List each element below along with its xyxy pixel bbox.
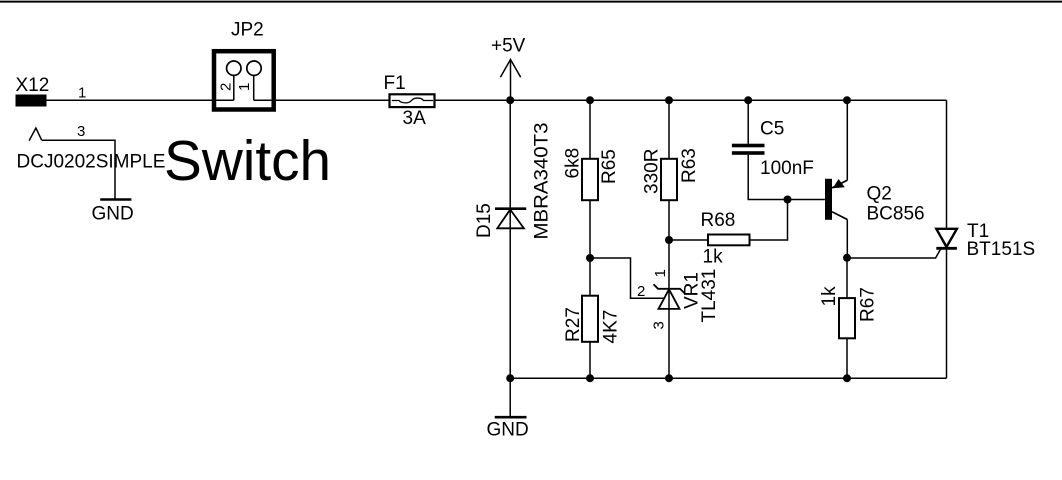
JP2 pin 2 stem wire [233, 75, 235, 100]
JP2 pin 2 circle [227, 61, 241, 75]
capacitor C5 plate bottom [732, 151, 765, 155]
svg-text:C5: C5 [760, 119, 784, 140]
wire VR1 anode to bottom rail [668, 309, 670, 378]
wire rail corner to T1 anode [946, 100, 948, 229]
wire Q2 collector to node [846, 220, 848, 258]
svg-text:2: 2 [218, 83, 235, 91]
svg-text:R27: R27 [563, 307, 584, 342]
JP2 pin 1 stem wire [253, 75, 255, 100]
node dot collector/R67/gate [843, 254, 851, 262]
svg-text:GND: GND [92, 204, 134, 225]
ground symbol left [100, 198, 131, 201]
wire R67 to bottom rail [846, 338, 848, 378]
node dot rail / Q2 emitter [843, 96, 851, 104]
wire bottom node to GND symbol [509, 378, 511, 417]
shunt regulator VR1 triangle [659, 289, 680, 309]
wire X12 pin3 to GND [42, 140, 115, 199]
wire R68 to base node [750, 200, 788, 241]
svg-text:2: 2 [637, 283, 645, 300]
resistor R68 body [708, 235, 750, 246]
connector X12 pin 3 bent lead [29, 128, 42, 141]
node dot bottom GND [506, 374, 514, 382]
thyristor T1 cathode bar [936, 247, 957, 250]
Q2 emitter lead [832, 180, 847, 188]
node dot bottom VR1 [665, 374, 673, 382]
bottom rail wire [510, 377, 946, 379]
svg-text:TL431: TL431 [699, 269, 720, 323]
svg-text:1k: 1k [819, 286, 840, 307]
resistor R65 body [582, 159, 598, 200]
frame border top [0, 1, 1062, 3]
wire rail to C5 [747, 100, 749, 144]
svg-text:3A: 3A [403, 108, 427, 129]
svg-text:MBRA340T3: MBRA340T3 [532, 123, 553, 240]
svg-text:GND: GND [487, 420, 529, 441]
wire node to T1 gate [847, 248, 941, 258]
wire rail to R63 [668, 100, 670, 159]
wire D15 anode to bottom rail [509, 228, 511, 378]
svg-text:D15: D15 [474, 203, 495, 238]
resistor R63 body [661, 159, 677, 200]
svg-text:R63: R63 [679, 148, 700, 183]
wire ref tap to VR1 pin2 [590, 258, 664, 298]
wire node to R67 [846, 258, 848, 298]
svg-text:BC856: BC856 [867, 204, 925, 225]
wire R63 to VR1 cathode [668, 200, 670, 289]
shunt regulator VR1 cathode bar [654, 284, 685, 293]
connector X12 pad [16, 95, 47, 107]
svg-text:6k8: 6k8 [563, 148, 584, 179]
svg-text:100nF: 100nF [760, 158, 814, 179]
svg-text:4K7: 4K7 [601, 310, 622, 344]
fuse F1 body [390, 94, 435, 107]
wire through D15 [509, 209, 511, 229]
svg-text:X12: X12 [16, 75, 50, 96]
Q2 emitter arrow [833, 179, 845, 188]
node dot rail / C5 [744, 96, 752, 104]
svg-text:Q2: Q2 [867, 184, 892, 205]
connector JP2 box [214, 51, 274, 109]
svg-text:DCJ0202SIMPLE: DCJ0202SIMPLE [17, 152, 166, 173]
wire X12 pin1 to JP2 pin2 [47, 99, 234, 101]
svg-text:1: 1 [236, 83, 253, 91]
diode D15 triangle [497, 210, 524, 229]
wire through VR1 [668, 289, 670, 309]
wire R65 to R27 [589, 200, 591, 296]
resistor R27 body [582, 296, 598, 342]
+5V stem wire [510, 60, 512, 101]
transistor Q2 base bar [825, 179, 832, 220]
svg-text:BT151S: BT151S [967, 239, 1036, 260]
node dot rail / R65 [586, 96, 594, 104]
svg-text:+5V: +5V [491, 36, 526, 57]
wire R27 to bottom rail [589, 342, 591, 378]
svg-text:R68: R68 [701, 210, 736, 231]
node dot base/C5/R68 [784, 196, 792, 204]
svg-text:JP2: JP2 [231, 20, 264, 41]
diode D15 cathode bar [495, 207, 526, 210]
node dot R63/R68 [665, 236, 673, 244]
node dot rail / R63 [665, 96, 673, 104]
thyristor T1 triangle [936, 229, 957, 247]
wire rail to D15 cathode [509, 100, 511, 209]
node dot bottom R67 [843, 374, 851, 382]
svg-text:1k: 1k [703, 247, 724, 268]
wire T1 cathode to bottom rail [946, 248, 948, 378]
svg-text:1: 1 [652, 269, 669, 277]
svg-text:3: 3 [77, 123, 85, 140]
svg-text:330R: 330R [642, 149, 663, 194]
ground symbol bottom [495, 416, 527, 419]
wire C5 to Q2 base [748, 155, 825, 200]
svg-text:R67: R67 [858, 287, 879, 322]
JP2 pin 1 circle [247, 61, 261, 75]
svg-text:1: 1 [78, 85, 86, 102]
capacitor C5 plate top [732, 144, 765, 148]
wire F1 to corner right [435, 99, 947, 101]
wire R63/R68 node to R68 [669, 239, 708, 241]
node dot bottom R27 [586, 374, 594, 382]
wire JP2 pin1 to fuse F1 [254, 99, 390, 101]
wire rail to R65 [589, 100, 591, 159]
node dot R65/R27/ref [586, 254, 594, 262]
svg-text:R65: R65 [599, 149, 620, 184]
svg-text:Switch: Switch [164, 129, 331, 193]
supply +5V symbol arrow [500, 60, 520, 78]
wire Q2 emitter to rail [846, 100, 848, 180]
fuse F1 wave element [392, 98, 433, 103]
svg-text:F1: F1 [384, 73, 406, 94]
node dot +5V rail / D15 [506, 96, 514, 104]
resistor R67 body [839, 298, 855, 338]
Q2 collector lead [832, 212, 847, 220]
svg-text:3: 3 [651, 321, 668, 329]
